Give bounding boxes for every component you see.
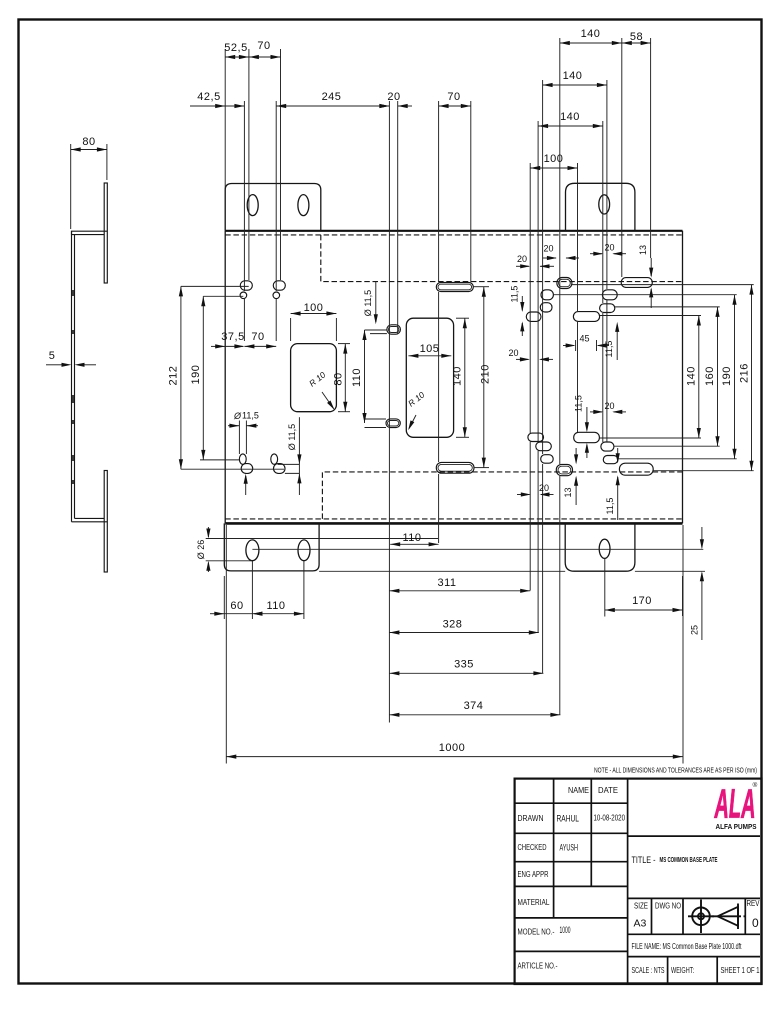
dimension 20 (top) bbox=[379, 91, 412, 108]
svg-text:20: 20 bbox=[543, 244, 553, 254]
svg-text:DWG NO: DWG NO bbox=[655, 902, 681, 911]
dimension 80 (side view) bbox=[71, 136, 107, 229]
svg-text:MODEL NO.-: MODEL NO.- bbox=[518, 927, 555, 937]
svg-text:AYUSH: AYUSH bbox=[560, 843, 579, 853]
dimension 170 bbox=[605, 576, 683, 616]
side view top flange bbox=[72, 231, 108, 234]
dimension 11,5 (S8, rotated) bbox=[510, 286, 525, 336]
svg-text:70: 70 bbox=[257, 40, 270, 52]
ext x538 bbox=[537, 121, 539, 633]
dimension 140 (cutout2) bbox=[452, 318, 470, 437]
dimension 140 (top right first) bbox=[560, 28, 622, 45]
svg-text:335: 335 bbox=[454, 659, 474, 671]
svg-text:45: 45 bbox=[579, 334, 589, 344]
dimension 20 (f) bbox=[517, 483, 554, 497]
svg-text:FILE NAME: MS Common Base Plat: FILE NAME: MS Common Base Plate 1000.dft bbox=[632, 941, 742, 951]
center small slot lower bbox=[386, 419, 400, 428]
leader 140r bottom bbox=[599, 437, 701, 439]
slot UL2 bbox=[273, 281, 285, 290]
bottom-right tab hole bbox=[599, 539, 610, 558]
plate left edge bbox=[224, 231, 226, 524]
svg-text:140: 140 bbox=[581, 28, 601, 40]
side view web (5 thick) bbox=[72, 231, 75, 522]
svg-text:80: 80 bbox=[82, 136, 95, 148]
svg-text:20: 20 bbox=[508, 348, 518, 358]
svg-text:140: 140 bbox=[560, 111, 580, 123]
svg-text:0: 0 bbox=[752, 916, 759, 930]
leader 210 bottom bbox=[474, 467, 489, 469]
svg-text:160: 160 bbox=[704, 366, 716, 386]
svg-text:210: 210 bbox=[480, 364, 492, 384]
dimension 212 bbox=[168, 286, 184, 469]
leaders 110 center bottom bbox=[365, 419, 387, 428]
slot S3 bbox=[541, 290, 553, 300]
svg-text:20: 20 bbox=[387, 91, 400, 103]
dimension 210 bbox=[480, 287, 492, 468]
svg-text:CHECKED: CHECKED bbox=[518, 842, 547, 852]
leader 190r top bbox=[553, 294, 736, 296]
dimension 140 (right) bbox=[686, 316, 701, 439]
dimension 70 (top second) bbox=[439, 91, 471, 108]
dimension 190 bbox=[190, 296, 205, 460]
svg-text:11,5: 11,5 bbox=[242, 411, 259, 421]
svg-text:DATE: DATE bbox=[598, 785, 618, 795]
ext UL slot pair 1 bbox=[244, 49, 249, 341]
svg-text:58: 58 bbox=[630, 31, 643, 43]
svg-text:20: 20 bbox=[604, 243, 614, 253]
dimension 100 (fourth) bbox=[530, 153, 577, 170]
svg-text:REV: REV bbox=[747, 899, 761, 908]
label R 10 (cutout2) bbox=[406, 389, 427, 431]
leader 216 bottom bbox=[653, 470, 754, 472]
slot S7 bbox=[573, 312, 599, 322]
svg-text:®: ® bbox=[753, 781, 758, 789]
svg-text:1000: 1000 bbox=[439, 742, 465, 754]
slot S8 bbox=[526, 312, 541, 321]
svg-text:11,5: 11,5 bbox=[605, 498, 615, 515]
leader 216 top bbox=[572, 284, 754, 286]
ext x602.8 bbox=[602, 121, 604, 442]
svg-text:13: 13 bbox=[638, 245, 648, 255]
svg-text:110: 110 bbox=[266, 600, 285, 612]
svg-text:NOTE - ALL DIMENSIONS AND TOLE: NOTE - ALL DIMENSIONS AND TOLERANCES ARE… bbox=[594, 766, 757, 775]
dimension 11,5 (S7, rotated) bbox=[604, 322, 619, 360]
dashed inner line lower bbox=[322, 472, 682, 519]
svg-text:80: 80 bbox=[333, 372, 345, 385]
dimension 100 (cutout1) bbox=[291, 302, 337, 341]
svg-text:216: 216 bbox=[739, 363, 751, 383]
svg-text:MATERIAL: MATERIAL bbox=[518, 897, 550, 907]
leader 190r bottom bbox=[618, 458, 737, 460]
svg-text:105: 105 bbox=[420, 343, 440, 355]
ext x577.5 bbox=[577, 163, 579, 432]
dimension 20 (c) bbox=[590, 243, 626, 256]
svg-text:13: 13 bbox=[563, 487, 573, 497]
top-right tab hole bbox=[599, 195, 610, 214]
dimension 20 (e) bbox=[590, 401, 626, 414]
center bottom slot (double outline) bbox=[436, 462, 474, 473]
dimension 110 (bottom center) bbox=[390, 532, 438, 546]
slot T7 bbox=[603, 456, 618, 464]
svg-text:52,5: 52,5 bbox=[224, 42, 247, 54]
dimension 45 bbox=[563, 334, 609, 352]
side view bottom flange bbox=[72, 518, 108, 521]
ext 70-dim pair through slots bbox=[439, 101, 471, 543]
ALFA logo bbox=[714, 781, 757, 827]
dimension 52,5 bbox=[224, 42, 249, 59]
svg-text:140: 140 bbox=[563, 70, 583, 82]
svg-text:11,5: 11,5 bbox=[604, 341, 614, 358]
ext bottom-left tab dims bbox=[224, 561, 304, 619]
ext plate left edge bbox=[225, 49, 226, 764]
dimension 70 (left mid) bbox=[244, 331, 276, 349]
svg-text:WEIGHT:: WEIGHT: bbox=[671, 965, 694, 975]
title block outer box bbox=[515, 779, 762, 984]
svg-text:10-08-2020: 10-08-2020 bbox=[594, 814, 626, 823]
svg-text:SHEET 1 OF 1: SHEET 1 OF 1 bbox=[721, 965, 760, 975]
svg-text:TITLE -: TITLE - bbox=[632, 855, 656, 865]
dimension 328 bbox=[389, 619, 538, 635]
leader 210 top bbox=[473, 286, 489, 288]
svg-text:ENG APPR: ENG APPR bbox=[518, 869, 549, 879]
slot S1 bbox=[557, 278, 572, 289]
svg-text:NAME: NAME bbox=[568, 785, 589, 795]
svg-text:RAHUL: RAHUL bbox=[557, 814, 580, 824]
hole LL2 bbox=[271, 454, 278, 464]
dimension 11,5 (T5, rotated) bbox=[574, 395, 590, 458]
dimension 11,5 (T8, rotated) bbox=[605, 448, 620, 520]
svg-text:140: 140 bbox=[686, 366, 698, 386]
leaders 110 center top bbox=[365, 330, 387, 334]
dimension 245 bbox=[276, 91, 389, 108]
ext x542.6 bbox=[542, 80, 544, 673]
dimension 190 (right) bbox=[721, 295, 737, 459]
dimension 20 (d) bbox=[508, 348, 553, 362]
svg-text:20: 20 bbox=[517, 254, 527, 264]
dimension 216 (right) bbox=[739, 285, 754, 471]
svg-text:311: 311 bbox=[437, 577, 456, 589]
label R 10 (cutout1) bbox=[307, 369, 336, 411]
svg-text:25: 25 bbox=[690, 625, 700, 635]
dashed bend line top bbox=[225, 234, 682, 236]
svg-text:Ø 11,5: Ø 11,5 bbox=[363, 290, 373, 316]
top-left tab bbox=[225, 184, 321, 231]
svg-text:20: 20 bbox=[604, 401, 614, 411]
plate right edge bbox=[682, 231, 684, 524]
slot T4 bbox=[556, 464, 572, 475]
svg-text:ARTICLE NO.-: ARTICLE NO.- bbox=[518, 961, 558, 971]
svg-text:170: 170 bbox=[632, 595, 652, 607]
ext x650.6 bbox=[650, 38, 652, 258]
ext x530 bbox=[529, 163, 531, 591]
svg-text:100: 100 bbox=[544, 153, 564, 165]
cutout 1 (100x80 R10) bbox=[291, 344, 337, 412]
dimension 80 (cutout1) bbox=[333, 344, 351, 412]
svg-text:SCALE : NTS: SCALE : NTS bbox=[632, 965, 665, 975]
top-left tab hole 2 bbox=[298, 195, 309, 216]
svg-text:A3: A3 bbox=[634, 918, 647, 930]
ext center pair bbox=[389, 101, 397, 723]
svg-text:70: 70 bbox=[447, 91, 460, 103]
svg-text:11,5: 11,5 bbox=[574, 395, 584, 412]
dimension 25 (rotated) bbox=[690, 527, 705, 640]
svg-text:Ø 11,5: Ø 11,5 bbox=[287, 424, 297, 450]
top-left tab hole 1 bbox=[247, 195, 258, 216]
dimension 110 (center vertical) bbox=[351, 330, 367, 423]
dimension 58 bbox=[622, 31, 651, 45]
slot S4 bbox=[602, 290, 617, 300]
title block grid bbox=[554, 779, 628, 984]
svg-text:Ø: Ø bbox=[233, 411, 242, 421]
plate bottom edge bbox=[225, 522, 682, 525]
svg-text:11,5: 11,5 bbox=[510, 286, 520, 303]
leader 212 top bbox=[181, 285, 249, 287]
svg-text:37,5: 37,5 bbox=[221, 331, 244, 343]
dimension 1000 bbox=[226, 742, 683, 759]
leader 140r top bbox=[600, 315, 701, 317]
ext bottom tab hole center bbox=[604, 558, 606, 617]
svg-text:374: 374 bbox=[464, 700, 484, 712]
svg-text:SIZE: SIZE bbox=[634, 902, 648, 911]
dimension phi 26 bbox=[196, 527, 211, 572]
side view bottom tab bbox=[104, 471, 107, 573]
slot T5 bbox=[574, 432, 600, 442]
svg-text:5: 5 bbox=[49, 350, 56, 362]
svg-text:1000: 1000 bbox=[560, 925, 571, 935]
slot T2 bbox=[536, 442, 552, 451]
hole UL1 bbox=[240, 292, 247, 299]
ext UL slot pair 2 bbox=[276, 49, 280, 341]
bottom-left tab bbox=[224, 523, 319, 571]
slot T6 bbox=[601, 442, 614, 451]
ext x621.8 bbox=[621, 38, 623, 277]
slot LL2 bbox=[274, 464, 286, 474]
svg-text:DRAWN: DRAWN bbox=[518, 813, 544, 823]
ext right edge below bbox=[682, 525, 684, 764]
leaders phi26 bbox=[206, 539, 438, 561]
top-right tab bbox=[566, 183, 635, 231]
plate top edge bbox=[225, 230, 682, 232]
slot T8 bbox=[619, 463, 653, 475]
svg-text:20: 20 bbox=[539, 483, 549, 493]
dimension 140 (third) bbox=[538, 111, 603, 128]
svg-text:190: 190 bbox=[721, 366, 733, 386]
dimension 374 bbox=[389, 700, 560, 717]
dimension 105 (cutout2) bbox=[408, 343, 451, 358]
center top slot (double outline) bbox=[436, 283, 473, 292]
leader 190 bottom bbox=[200, 459, 239, 461]
svg-text:R 10: R 10 bbox=[406, 389, 427, 408]
svg-text:140: 140 bbox=[452, 366, 464, 386]
slot S6 bbox=[600, 304, 615, 313]
tab bottom extension line bbox=[319, 570, 705, 572]
svg-text:ALFA PUMPS: ALFA PUMPS bbox=[716, 822, 757, 831]
dimension 311 bbox=[389, 577, 530, 593]
ext x559.8 bbox=[559, 38, 561, 715]
svg-text:R 10: R 10 bbox=[307, 369, 328, 388]
svg-text:190: 190 bbox=[190, 365, 202, 385]
hole LL1 bbox=[239, 454, 246, 464]
hole centerline bottom tabs bbox=[252, 548, 703, 550]
side view stitch ticks bbox=[72, 290, 74, 484]
slot T1 bbox=[528, 433, 544, 441]
ext x606.9 bbox=[606, 80, 608, 442]
svg-text:Ø 26: Ø 26 bbox=[196, 540, 206, 560]
dimension 42,5 bbox=[190, 91, 244, 108]
dimension 20 (a) bbox=[516, 254, 554, 268]
dimension 140 (second) bbox=[543, 70, 607, 87]
slot S2 bbox=[621, 278, 652, 288]
svg-text:60: 60 bbox=[230, 600, 243, 612]
bottom-left tab hole 2 bbox=[298, 540, 310, 561]
dimension 110 (bottom left) bbox=[252, 600, 304, 616]
side view top tab bbox=[104, 183, 107, 283]
dimension 37,5 bbox=[211, 331, 245, 349]
cutout 2 (105x140 R10) bbox=[406, 318, 453, 437]
projection symbol bbox=[688, 900, 745, 934]
dimension 335 bbox=[389, 659, 543, 676]
svg-text:110: 110 bbox=[351, 368, 363, 387]
slot LL1 bbox=[241, 464, 253, 474]
dimension phi 11,5 (vertical, lower-left) bbox=[287, 417, 302, 495]
svg-text:MS COMMON BASE PLATE: MS COMMON BASE PLATE bbox=[660, 855, 718, 864]
svg-text:100: 100 bbox=[304, 302, 324, 314]
leader 160 top bbox=[615, 306, 720, 308]
slot T3 bbox=[541, 455, 554, 464]
slot UL1 bbox=[240, 281, 252, 290]
hole UL2 bbox=[273, 292, 280, 299]
center small slot upper bbox=[387, 325, 401, 334]
leaders phi11,5 lower-left bbox=[278, 464, 300, 473]
svg-text:70: 70 bbox=[251, 331, 264, 343]
svg-text:245: 245 bbox=[322, 91, 342, 103]
dimension 13 (bottom, rotated) bbox=[563, 448, 578, 505]
slot S5 bbox=[540, 303, 552, 312]
dimension 70 (top) bbox=[249, 40, 281, 59]
dashed bend line bottom bbox=[225, 518, 682, 520]
dimension phi 11,5 (left horizontal) bbox=[228, 411, 259, 496]
label phi 11,5 (center, rotated) bbox=[363, 282, 378, 325]
bottom-right tab bbox=[565, 523, 635, 571]
svg-text:ALA: ALA bbox=[714, 781, 755, 827]
svg-text:110: 110 bbox=[402, 532, 421, 544]
leader 160 bottom bbox=[614, 445, 720, 447]
bottom-left tab hole 1 bbox=[246, 540, 259, 561]
dimension 60 bbox=[210, 600, 262, 616]
dimension 13 (top, rotated) bbox=[638, 245, 653, 308]
dimension 160 (right) bbox=[704, 307, 720, 446]
dashed inner line upper bbox=[321, 235, 683, 282]
dimension 5 (side view) bbox=[46, 350, 96, 367]
leader 190 top bbox=[203, 295, 243, 297]
leader 212 bottom bbox=[181, 468, 284, 470]
svg-text:212: 212 bbox=[168, 366, 180, 386]
dimension 20 (b) bbox=[543, 244, 579, 261]
svg-text:328: 328 bbox=[443, 619, 463, 631]
svg-text:42,5: 42,5 bbox=[197, 91, 220, 103]
